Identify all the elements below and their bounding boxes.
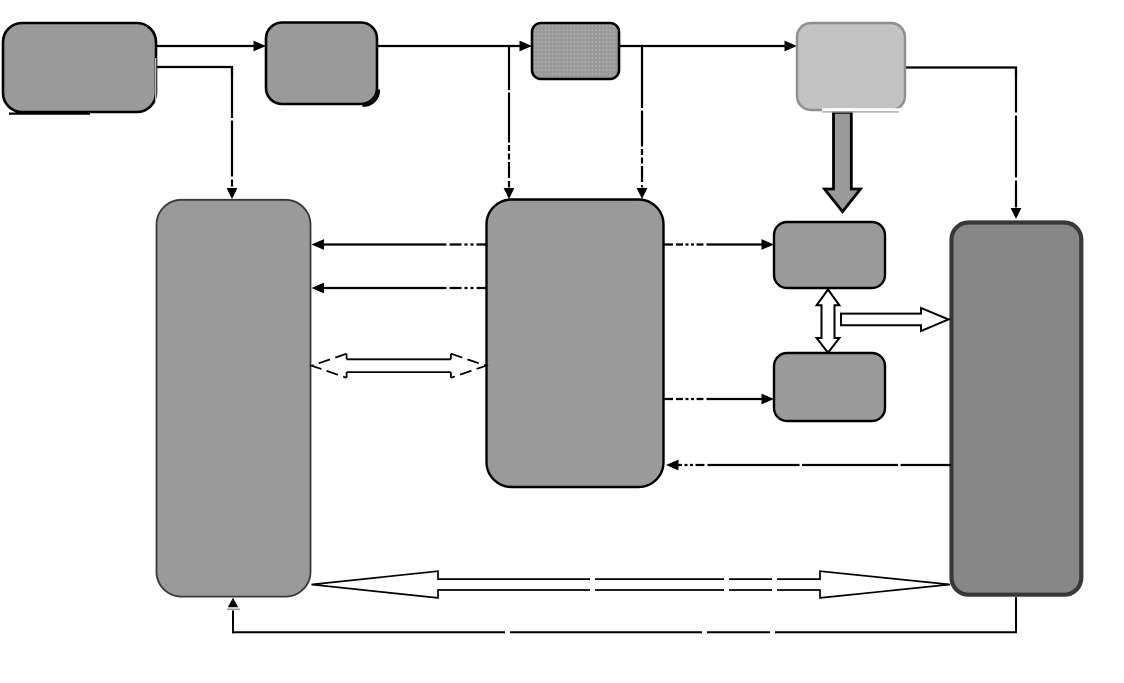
wire box9 bottom to box5 bottom (feedback) <box>227 597 1017 633</box>
block arrow box4 to box7 <box>825 112 861 211</box>
open arrow to box9 <box>841 308 949 331</box>
wire box2 to box3 <box>377 41 532 52</box>
box2 <box>266 23 377 105</box>
bottom long open double arrow box5-box9 <box>312 571 951 598</box>
box8 (small lower right) <box>774 353 885 421</box>
box9 (right tall dark) <box>952 223 1082 595</box>
open double arrow box7-box8 vertical <box>817 290 840 353</box>
box5 (left tall) <box>157 200 311 597</box>
open double arrow box5-box6 <box>312 354 486 378</box>
arrow box6 to box8 <box>664 394 774 405</box>
arrow box6 to box5 lower <box>312 283 487 294</box>
box3 (dotted fill) <box>532 23 619 79</box>
arrow box6 to box5 upper <box>312 239 487 250</box>
arrow box6 to box7 <box>664 239 774 250</box>
box1 <box>3 23 156 112</box>
wire box4 to box9 (elbow) <box>905 68 1021 220</box>
arrow box9 to box6 <box>666 460 951 471</box>
wire box3 to box4 <box>619 41 797 52</box>
box6 (middle tall) <box>487 200 664 488</box>
wire branch to box6 top right <box>637 46 648 199</box>
wire box1 to box2 <box>156 41 266 52</box>
wire branch to box6 top left <box>504 46 515 199</box>
box7 (small upper right) <box>774 222 885 288</box>
wire box1 to box5 (elbow) <box>156 67 237 199</box>
box4 (light) <box>797 23 905 110</box>
